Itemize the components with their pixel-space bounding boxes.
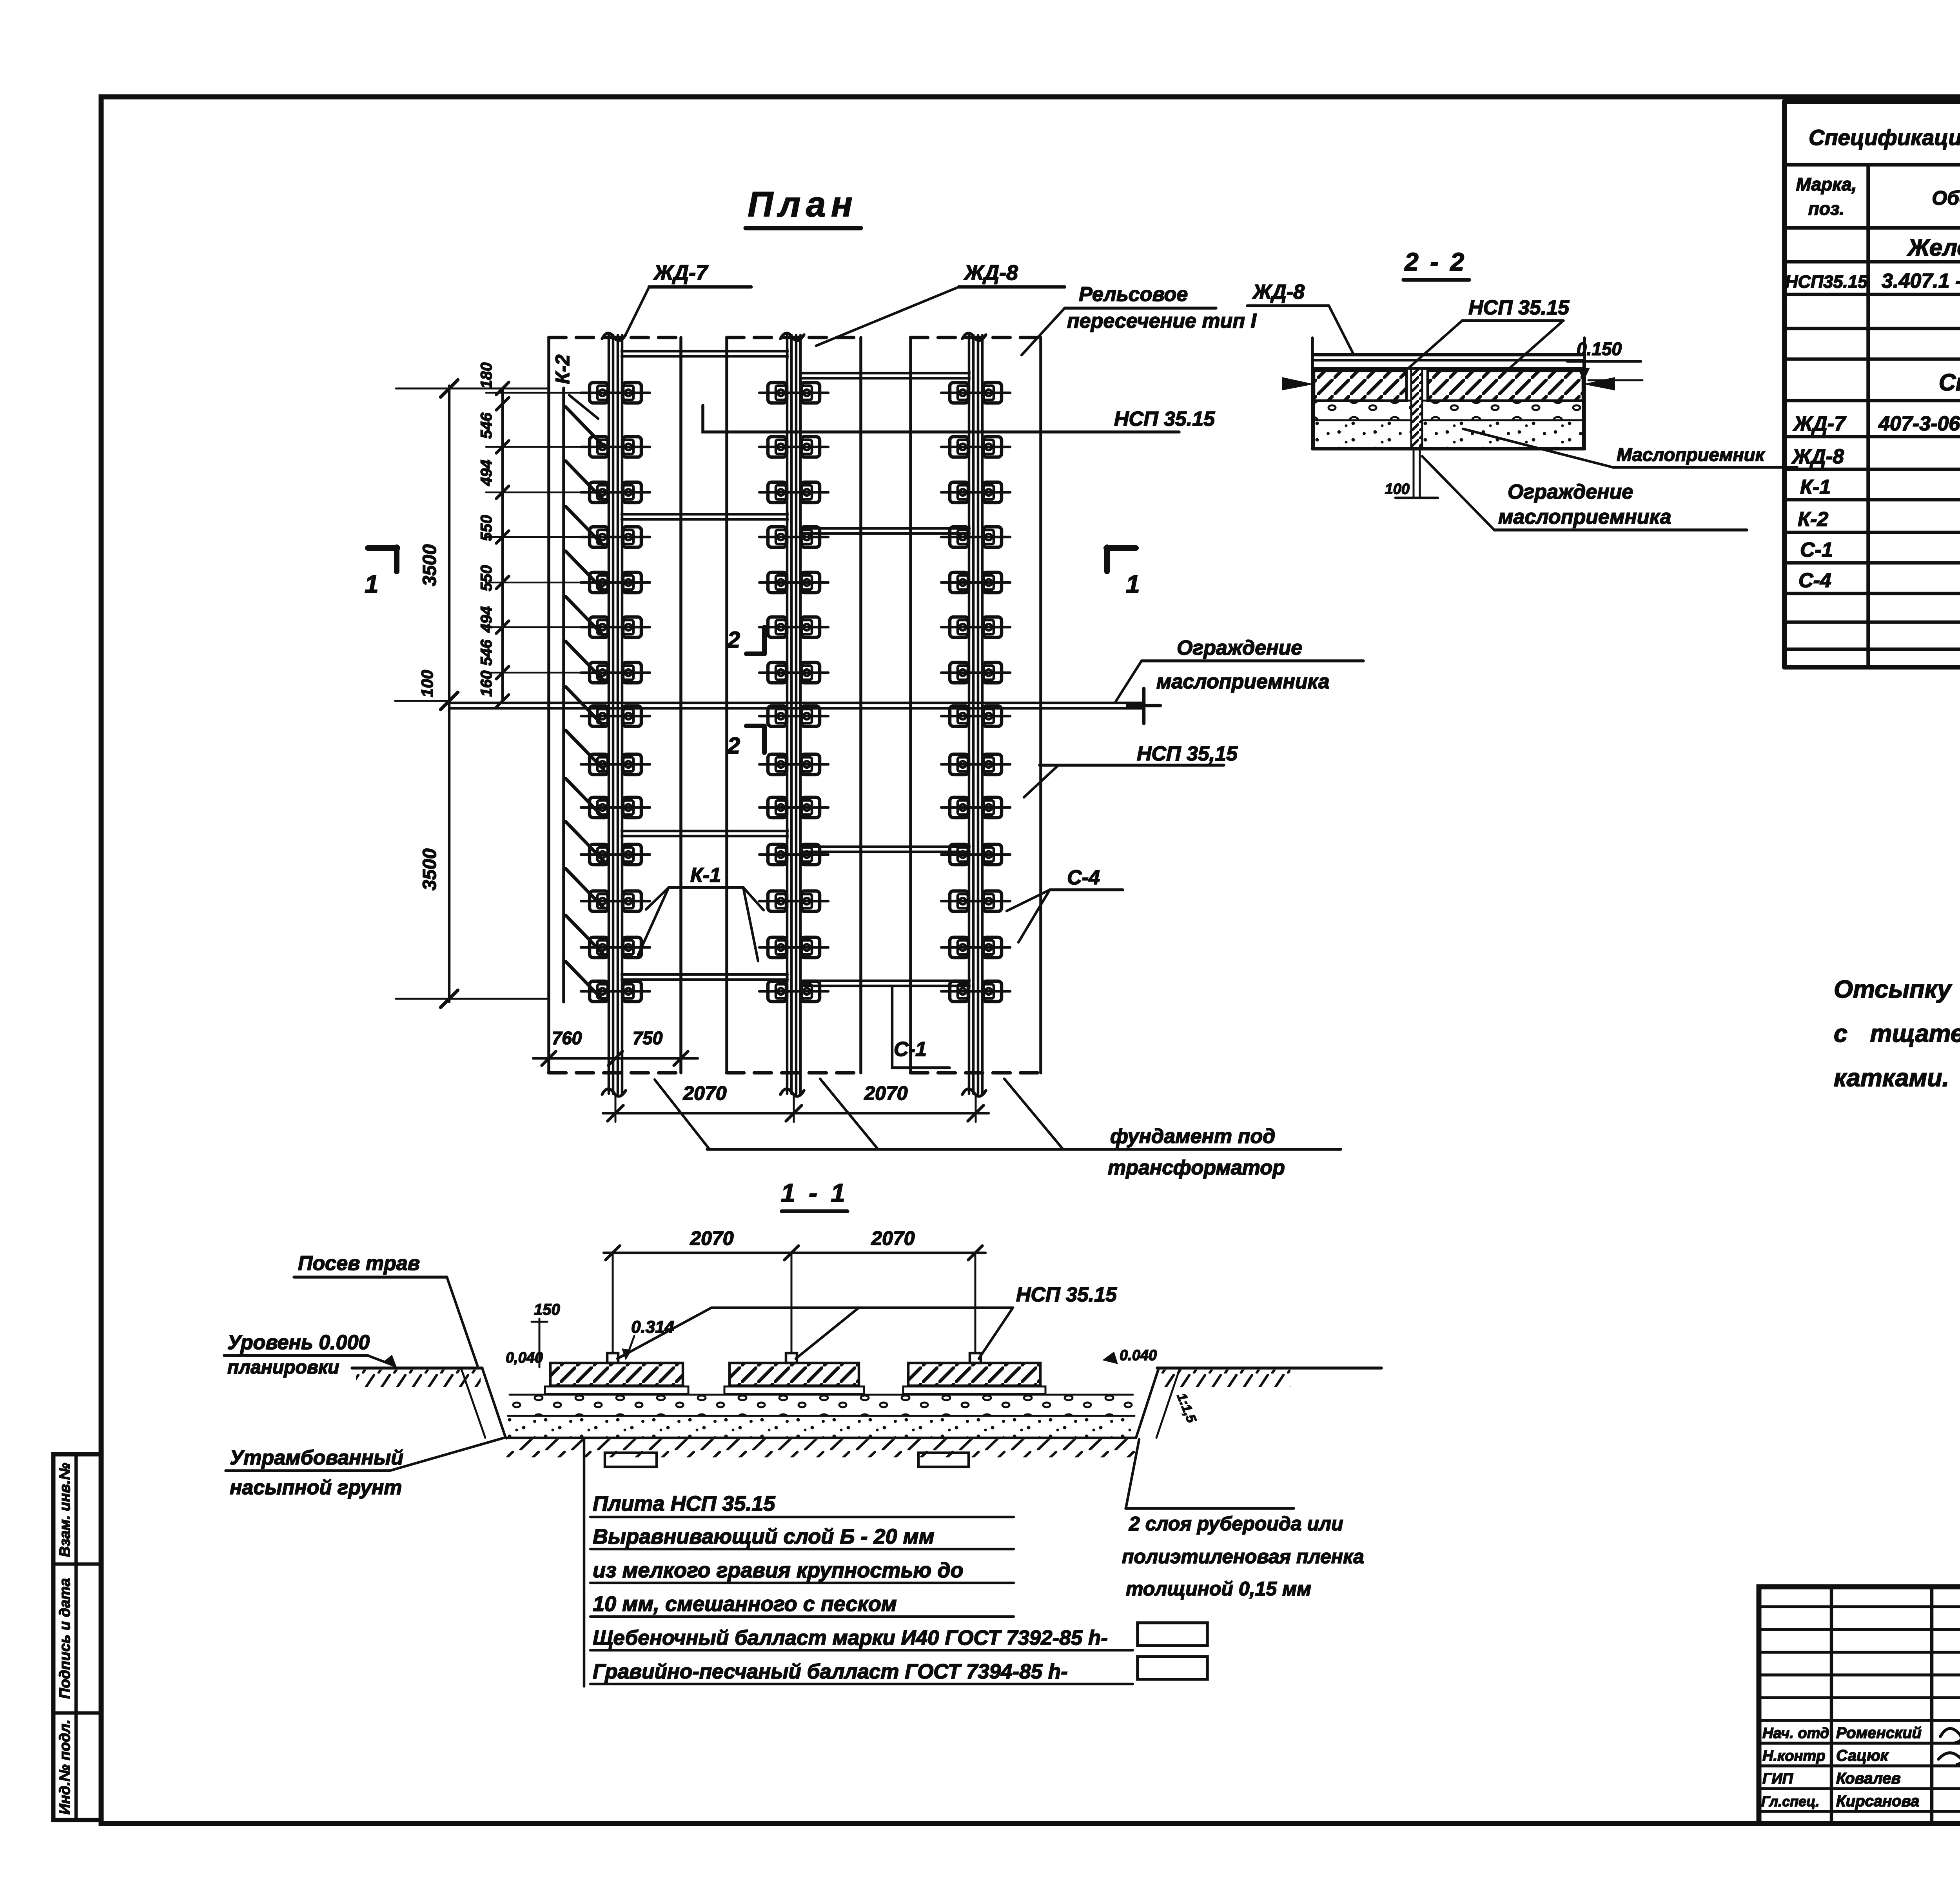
svg-text:494: 494: [478, 460, 495, 486]
level mark 0.150: [1567, 339, 1642, 381]
svg-text:2070: 2070: [690, 1227, 733, 1249]
svg-text:ЖД-8: ЖД-8: [1791, 445, 1844, 468]
svg-text:0.040: 0.040: [1120, 1347, 1157, 1364]
svg-text:550: 550: [478, 515, 495, 541]
label НСП 35.15 (section 2-2) with parallelogram leader: [1408, 296, 1570, 368]
label Маслоприемник: [1463, 429, 1797, 467]
excavation slopes: [461, 1347, 1199, 1438]
svg-text:Отсыпку балласта выполнять сло: Отсыпку балласта выполнять слоями 10 см.: [1834, 976, 1960, 1003]
svg-text:1:1,5: 1:1,5: [1174, 1391, 1200, 1425]
tie rods С-1 between rails: [622, 349, 969, 988]
svg-text:План: План: [748, 185, 858, 224]
svg-text:К-2: К-2: [1798, 508, 1828, 531]
section mark 1 (right): [1106, 547, 1140, 598]
plan bottom dimensions 2070/2070: [603, 1082, 989, 1122]
signatures squiggles: [1938, 1729, 1960, 1765]
section 2-2 side arrows: [1282, 377, 1615, 390]
svg-text:Ограждение: Ограждение: [1508, 481, 1633, 503]
svg-text:2070: 2070: [864, 1082, 907, 1104]
svg-text:ЖД-7: ЖД-7: [653, 261, 709, 285]
label ЖД-7 with leader: [625, 261, 751, 336]
svg-text:2 - 2: 2 - 2: [1404, 248, 1466, 276]
svg-text:поз.: поз.: [1808, 198, 1844, 219]
label Уровень 0.000 планировки: [224, 1331, 397, 1378]
label НСП 35.15 (section 1-1) with three leaders: [617, 1283, 1117, 1359]
svg-text:Обозначение: Обозначение: [1932, 187, 1960, 209]
svg-text:2070: 2070: [682, 1082, 726, 1104]
section 2-2 oil fence strip (hatched): [1385, 368, 1438, 498]
svg-text:С-4: С-4: [1798, 569, 1831, 592]
ground surface lines with soil hatch: [352, 1368, 1381, 1387]
svg-text:100: 100: [1385, 481, 1410, 497]
svg-text:2070: 2070: [871, 1227, 915, 1249]
svg-text:100: 100: [418, 670, 436, 697]
svg-text:ЖД-8: ЖД-8: [963, 261, 1018, 285]
label К-2 (rotated) with leader: [552, 354, 598, 419]
svg-text:3.407.1 - 157.1 - 17Ф4: 3.407.1 - 157.1 - 17Ф4: [1882, 270, 1960, 292]
svg-text:1: 1: [1126, 570, 1140, 598]
svg-text:Марка,: Марка,: [1796, 174, 1857, 194]
svg-text:ЖД-8: ЖД-8: [1252, 281, 1305, 303]
svg-text:ГИП: ГИП: [1762, 1771, 1793, 1787]
svg-text:Инд.№ подл.: Инд.№ подл.: [57, 1720, 73, 1815]
svg-text:Плита НСП 35.15: Плита НСП 35.15: [593, 1492, 775, 1515]
plan bottom dimensions 760/750: [533, 1028, 698, 1065]
label Утрамбованный насыпной грунт: [226, 1438, 504, 1499]
concrete slabs with rails (section 1-1): [545, 1353, 1045, 1394]
svg-text:Гравийно-песчаный балласт Г: Гравийно-песчаный балласт ГОСТ 7394-85 h…: [593, 1660, 1068, 1683]
section mark 2 (lower): [727, 726, 764, 758]
layers callout list: [584, 1438, 1207, 1686]
section mark 1 (left): [365, 547, 397, 598]
svg-text:Ограждение: Ограждение: [1177, 637, 1302, 659]
svg-text:Подпись и дата: Подпись и дата: [57, 1578, 73, 1699]
svg-text:трансформатор: трансформатор: [1108, 1156, 1285, 1179]
label ЖД-8 with leader: [816, 261, 1065, 346]
section 2-2 body: rail plate layers: [1312, 338, 1584, 449]
svg-text:494: 494: [478, 606, 495, 633]
svg-text:НСП 35.15: НСП 35.15: [1114, 408, 1215, 430]
svg-text:маслоприемника: маслоприемника: [1156, 670, 1330, 693]
svg-text:катками.: катками.: [1834, 1064, 1949, 1092]
label 2 слоя рубероида: [1122, 1439, 1364, 1600]
label Рельсовое пересечение тип I: [1022, 283, 1257, 355]
svg-text:пересечение тип I: пересечение тип I: [1067, 310, 1257, 332]
svg-text:Железобетонные: Железобетонные: [1907, 234, 1960, 261]
svg-text:Маслоприемник: Маслоприемник: [1617, 444, 1765, 465]
svg-text:3500: 3500: [419, 848, 440, 890]
svg-text:Посев трав: Посев трав: [298, 1252, 420, 1275]
svg-text:НСП35.15: НСП35.15: [1785, 272, 1868, 292]
dimension chain outer 3500/100/3500: [395, 380, 547, 1007]
pit floor and ballast layers: [506, 1395, 1136, 1457]
section mark 2 (upper): [727, 627, 764, 654]
label НСП 35,15 (lower) with leader: [1024, 742, 1238, 797]
label Посев трав: [294, 1252, 477, 1366]
label ЖД-8 (section 2-2): [1247, 281, 1353, 354]
svg-text:фундамент под: фундамент под: [1110, 1125, 1275, 1148]
svg-text:Щебеночный балласт марки И40: Щебеночный балласт марки И40 ГОСТ 7392-8…: [593, 1626, 1108, 1649]
clamp elements К-1 / К-2 rows on all three rails: [581, 383, 1010, 1002]
label фундамент под трансформатор with leaders to slabs: [655, 1079, 1341, 1179]
svg-text:0.314: 0.314: [631, 1317, 674, 1337]
svg-text:Утрамбованный: Утрамбованный: [230, 1446, 403, 1469]
svg-text:Кирсанова: Кирсанова: [1836, 1793, 1919, 1810]
svg-text:750: 750: [633, 1028, 663, 1048]
svg-text:С-1: С-1: [1800, 539, 1833, 561]
svg-text:150: 150: [534, 1301, 560, 1318]
svg-text:546: 546: [478, 412, 495, 439]
svg-text:К-2: К-2: [552, 354, 573, 384]
svg-text:НСП 35.15: НСП 35.15: [1016, 1283, 1117, 1306]
svg-text:С-1: С-1: [894, 1038, 927, 1061]
svg-text:1 - 1: 1 - 1: [781, 1178, 848, 1207]
svg-text:Н.контр: Н.контр: [1762, 1748, 1825, 1764]
plan title: [746, 185, 861, 228]
svg-text:2: 2: [727, 733, 740, 758]
TITLE BLOCK: [1759, 1587, 1960, 1824]
small dimension 150: [532, 1301, 560, 1367]
svg-text:Уровень 0.000: Уровень 0.000: [227, 1331, 370, 1354]
sample boxes under pit: [605, 1453, 969, 1467]
left stamp boxes (rotated): [53, 1454, 102, 1820]
svg-text:НСП 35.15: НСП 35.15: [1468, 296, 1570, 319]
level mark 0.314: [622, 1317, 674, 1360]
svg-text:10 мм, смешанного с песком: 10 мм, смешанного с песком: [593, 1592, 897, 1616]
label К-1 with fork leaders: [638, 864, 764, 961]
svg-text:Спецификация элементов к попер: Спецификация элементов к поперечному пут…: [1809, 125, 1960, 150]
oil-catcher fence long line across plan: [450, 688, 1160, 724]
svg-text:2: 2: [727, 627, 740, 653]
svg-text:К-1: К-1: [1800, 476, 1831, 499]
rail ЖД-7 (left) and rails ЖД-8 (middle, right): [602, 333, 986, 1096]
label НСП 35.15 (upper) with leader: [703, 405, 1215, 432]
svg-text:С-4: С-4: [1067, 866, 1100, 889]
section title 2-2: [1403, 248, 1469, 280]
svg-text:Рельсовое: Рельсовое: [1079, 283, 1188, 306]
svg-text:планировки: планировки: [227, 1357, 339, 1378]
section title 1-1: [781, 1178, 848, 1211]
dimensions 2070/2070 over section 1-1: [604, 1227, 985, 1353]
svg-text:с тщательным уплотнением мотор: с тщательным уплотнением моторными: [1834, 1020, 1960, 1047]
svg-text:Нач. отд: Нач. отд: [1762, 1725, 1829, 1742]
svg-text:760: 760: [552, 1028, 582, 1048]
svg-text:3500: 3500: [419, 544, 440, 586]
svg-text:К-1: К-1: [690, 864, 721, 887]
svg-text:полиэтиленовая пленка: полиэтиленовая пленка: [1122, 1546, 1364, 1568]
specification table: [1784, 102, 1960, 667]
svg-text:160: 160: [478, 671, 495, 697]
oil-catcher fence edge line with hatch strokes: [564, 388, 604, 1002]
svg-text:0,040: 0,040: [506, 1350, 543, 1366]
ballast note text: [1834, 976, 1960, 1092]
svg-text:Ковалев: Ковалев: [1836, 1770, 1901, 1787]
svg-text:Взам. инв.№: Взам. инв.№: [57, 1463, 73, 1557]
svg-text:из мелкого гравия крупностью: из мелкого гравия крупностью до: [593, 1559, 964, 1582]
label С-1 with leader to tie rod: [892, 986, 949, 1068]
svg-text:180: 180: [478, 363, 495, 389]
svg-text:Стальные: Стальные: [1939, 369, 1960, 396]
svg-text:Выравнивающий слой Б - 20 мм: Выравнивающий слой Б - 20 мм: [593, 1525, 935, 1548]
svg-text:550: 550: [478, 565, 495, 592]
section 2-2 granule and ballast layers: [1312, 401, 1584, 449]
svg-text:насыпной грунт: насыпной грунт: [230, 1476, 402, 1499]
svg-text:407-3-0603.91-КС.И -12: 407-3-0603.91-КС.И -12: [1878, 412, 1960, 435]
svg-text:толщиной 0,15 мм: толщиной 0,15 мм: [1126, 1578, 1311, 1600]
section 2-2 hatched slab band: [1314, 371, 1583, 401]
dimension chain inner 180/546/494/550...: [478, 363, 588, 707]
svg-text:1: 1: [365, 570, 379, 598]
label Ограждение маслоприемника (plan): [1116, 637, 1363, 702]
label Ограждение маслоприемника (section 2-2): [1422, 456, 1747, 530]
svg-text:Роменский: Роменский: [1836, 1724, 1922, 1742]
svg-text:2 слоя рубероида или: 2 слоя рубероида или: [1129, 1513, 1343, 1535]
title block texts: [1761, 1598, 1960, 1824]
svg-text:Гл.спец.: Гл.спец.: [1761, 1793, 1819, 1809]
foundation slab plate A (dashed outline): [549, 338, 1041, 1073]
svg-text:НСП 35,15: НСП 35,15: [1137, 742, 1238, 765]
label С-4 with fork leaders: [1007, 866, 1123, 942]
svg-text:маслоприемника: маслоприемника: [1498, 506, 1671, 528]
svg-text:Сацюк: Сацюк: [1836, 1747, 1889, 1764]
svg-text:546: 546: [478, 639, 495, 666]
svg-text:ЖД-7: ЖД-7: [1793, 412, 1846, 435]
